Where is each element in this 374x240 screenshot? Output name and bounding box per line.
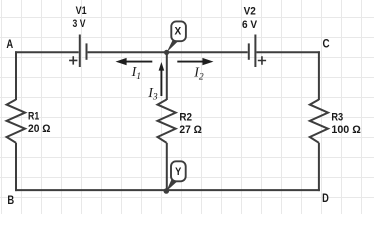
wire bottom side B to D [15,189,320,191]
svg-text:100 Ω: 100 Ω [331,124,361,136]
wire top segment A to V1 [15,51,79,53]
svg-text:B: B [7,193,14,207]
battery V1 plus sign [69,56,77,64]
svg-text:D: D [322,191,329,205]
svg-text:A: A [6,37,13,51]
svg-text:3 V: 3 V [73,18,86,30]
wire right side upper C to R3 [318,51,320,100]
current arrow I1 [116,58,153,65]
current arrow I2 [177,58,213,65]
node Y junction dot [164,188,170,194]
wire top segment V1 to V2 [88,51,248,53]
wire left side upper A to R1 [15,51,17,100]
svg-text:R1: R1 [28,110,39,122]
svg-text:I3: I3 [147,86,158,103]
current arrow I3 [159,62,165,96]
svg-text:27 Ω: 27 Ω [179,124,202,136]
svg-text:20 Ω: 20 Ω [28,123,51,135]
svg-text:Y: Y [175,166,182,178]
svg-text:I2: I2 [193,66,204,83]
svg-text:I1: I1 [131,65,141,82]
resistor R1 [7,100,26,143]
wire top segment V2 to C [257,51,320,53]
wire middle branch X to R2 [166,52,168,100]
svg-text:V1: V1 [76,5,87,17]
node X junction dot [164,50,169,55]
battery V2 long plate [254,35,256,68]
callout X box [171,21,186,41]
svg-text:6 V: 6 V [242,19,258,31]
wire middle branch R2 to Y [166,143,168,190]
battery V2 plus sign [258,56,266,64]
svg-text:C: C [323,37,330,51]
callout Y pointer [166,179,177,192]
callout Y box [171,161,186,181]
svg-text:X: X [175,25,182,37]
svg-text:R3: R3 [331,112,343,124]
wire right side lower R3 to D [318,143,320,191]
resistor R2 [158,100,176,143]
wire left side lower R1 to B [15,143,17,191]
svg-text:V2: V2 [244,5,256,17]
svg-text:R2: R2 [179,112,192,124]
resistor R3 [310,100,328,143]
battery V1 short plate [86,43,88,59]
battery V2 short plate [248,43,250,59]
callout X pointer [167,40,179,53]
battery V1 long plate [79,35,81,68]
